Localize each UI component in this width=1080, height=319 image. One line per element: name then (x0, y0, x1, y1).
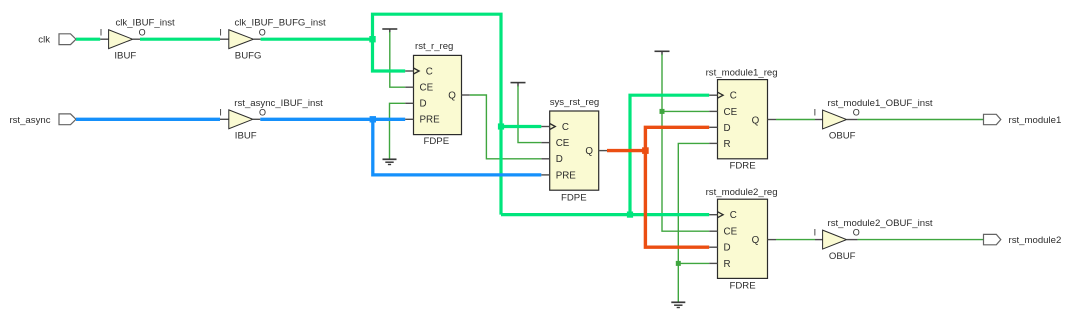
type label IBUF (114, 51, 136, 62)
svg-text:PRE: PRE (556, 170, 577, 181)
svg-text:clk_IBUF_BUFG_inst: clk_IBUF_BUFG_inst (235, 18, 326, 29)
pin label O of clk IBUF (139, 27, 146, 37)
port label rst_module1 (1009, 115, 1062, 126)
vcc const1 symbol (rst_r_reg CE) (382, 29, 397, 33)
clock wedge sys_rst_reg C (550, 124, 556, 130)
pin stubs rst_module1_reg (709, 95, 776, 143)
type label BUFG (235, 51, 262, 62)
wire clk net BUFG to junction (261, 38, 373, 41)
svg-text:I: I (100, 27, 103, 37)
pin stub I of clk IBUF (100, 38, 108, 40)
wire clk net branch to sys_rst_reg C (501, 125, 541, 128)
instance label rst_async_IBUF_inst (234, 98, 323, 109)
instance label rst_module2_OBUF_inst (828, 218, 933, 229)
svg-text:C: C (730, 210, 737, 221)
type label OBUF1 (829, 131, 856, 142)
pin label R rst_module2_reg (724, 259, 731, 270)
pin label I of OBUF2 (814, 227, 817, 237)
buffer U clk_IBUF_inst (109, 30, 133, 49)
svg-text:O: O (853, 107, 860, 117)
output port rst_module2 (984, 234, 1001, 244)
pin stub O of clk IBUF (133, 38, 140, 40)
pin stub O of BUFG (253, 38, 260, 40)
svg-text:rst_module1: rst_module1 (1009, 115, 1062, 126)
wire sys_rst net to rst_module1_reg D (645, 127, 709, 150)
wire rst_async net IBUF to junction (260, 118, 373, 121)
svg-text:C: C (730, 91, 737, 102)
pin label I of rst_async IBUF (219, 107, 222, 117)
svg-text:rst_module2_reg: rst_module2_reg (706, 187, 778, 198)
clock wedge rst_module1_reg C (718, 92, 724, 98)
svg-text:IBUF: IBUF (235, 131, 257, 142)
wire rst_async net to rst_r_reg PRE (373, 118, 405, 121)
pin label O of BUFG (259, 27, 266, 37)
pin label D rst_module2_reg (724, 243, 731, 254)
svg-text:Q: Q (448, 90, 456, 101)
svg-text:D: D (420, 99, 427, 110)
pin label Q rst_module1_reg (752, 115, 760, 126)
register sys_rst_reg FDPE (550, 111, 599, 190)
pin label Q sys_rst_reg (585, 146, 593, 157)
type label OBUF2 (829, 251, 856, 262)
svg-text:rst_module2_OBUF_inst: rst_module2_OBUF_inst (828, 218, 933, 229)
pin stub O of rst_async IBUF (253, 118, 260, 120)
type label FDRE rst_module2_reg (730, 281, 756, 292)
pin label C rst_module2_reg (730, 210, 737, 221)
register rst_r_reg FDPE (414, 55, 462, 134)
pin stubs sys_rst_reg (541, 127, 607, 175)
port label rst_module2 (1009, 235, 1062, 246)
pin stub O of OBUF1 (847, 119, 858, 121)
instance label clk_IBUF_inst (116, 18, 176, 29)
svg-text:FDPE: FDPE (561, 192, 587, 203)
pin label CE sys_rst_reg (556, 138, 570, 149)
svg-text:O: O (139, 27, 146, 37)
svg-text:Q: Q (752, 235, 760, 246)
svg-text:O: O (853, 227, 860, 237)
pin label CE rst_module1_reg (724, 107, 738, 118)
svg-text:D: D (724, 243, 731, 254)
svg-text:rst_module1_reg: rst_module1_reg (706, 68, 778, 79)
instance label clk_IBUF_BUFG_inst (235, 18, 326, 29)
svg-text:FDRE: FDRE (730, 161, 756, 172)
junction clk net at sys_rst_reg C (498, 123, 504, 129)
wire clk port to IBUF (76, 38, 100, 41)
instance label rst_module1_reg (706, 68, 778, 79)
pin label O of OBUF2 (853, 227, 860, 237)
pin label D rst_module1_reg (724, 123, 731, 134)
buffer U rst_async_IBUF_inst (229, 110, 253, 129)
type label FDPE rst_r_reg (424, 136, 450, 147)
wire sys_rst net to rst_module2_reg D (645, 151, 709, 248)
svg-text:rst_async_IBUF_inst: rst_async_IBUF_inst (234, 98, 323, 109)
svg-text:O: O (259, 27, 266, 37)
type label FDPE sys_rst_reg (561, 192, 587, 203)
svg-text:CE: CE (724, 107, 738, 118)
svg-text:I: I (219, 27, 222, 37)
junction rst_async net (370, 116, 376, 122)
ground symbol (module R) (671, 302, 685, 307)
svg-text:R: R (724, 259, 731, 270)
buffer U clk_IBUF_BUFG_inst (229, 30, 254, 49)
wire const1 trunk to CE pins (662, 54, 709, 231)
wire rst_async port to IBUF (76, 118, 220, 121)
svg-text:I: I (814, 227, 817, 237)
svg-text:CE: CE (556, 138, 570, 149)
pin label CE rst_module2_reg (724, 227, 738, 238)
wire rst_r_reg Q to sys_rst_reg D (470, 95, 542, 159)
pin label I of clk IBUF (100, 27, 103, 37)
wire clk_IBUF to BUFG (140, 38, 220, 41)
input port clk (59, 34, 76, 45)
junction clk net at BUFG output (369, 36, 375, 42)
wire clk net branch to rst_r_reg C (373, 39, 406, 71)
pin stub I of rst_async IBUF (220, 118, 229, 120)
register rst_module1_reg FDRE (718, 80, 768, 159)
pin label Q rst_r_reg (448, 90, 456, 101)
svg-text:BUFG: BUFG (235, 51, 262, 62)
svg-text:IBUF: IBUF (114, 51, 136, 62)
svg-text:O: O (259, 107, 266, 117)
register rst_module2_reg FDRE (718, 199, 768, 278)
junction sys_rst net (642, 147, 649, 154)
clock wedge rst_r_reg C (414, 68, 420, 74)
instance label rst_module1_OBUF_inst (828, 98, 933, 109)
svg-text:I: I (219, 107, 222, 117)
pin label I of BUFG (219, 27, 222, 37)
wire const1 to rst_r_reg CE (390, 32, 405, 87)
type label FDRE rst_module1_reg (730, 161, 756, 172)
wire sys_rst net Q to junction (607, 149, 645, 152)
pin stub O of OBUF2 (847, 239, 858, 241)
pin label D sys_rst_reg (556, 154, 563, 165)
instance label sys_rst_reg (550, 97, 600, 108)
instance label rst_r_reg (415, 41, 453, 52)
svg-text:C: C (426, 66, 433, 77)
buffer U rst_module2_OBUF_inst (823, 230, 847, 249)
svg-text:CE: CE (724, 227, 738, 238)
junction ground net at rst_module2_reg R (676, 261, 681, 266)
svg-text:CE: CE (420, 83, 434, 94)
pin label PRE rst_r_reg (420, 115, 441, 126)
wire ground branch to rst_module2_reg R (678, 262, 709, 264)
pin label C sys_rst_reg (562, 122, 569, 133)
junction const1 at rst_module1_reg CE (660, 109, 665, 114)
svg-text:rst_r_reg: rst_r_reg (415, 41, 453, 52)
svg-text:OBUF: OBUF (829, 251, 856, 262)
wire const1 branch to rst_module1_reg CE (662, 110, 709, 112)
svg-text:rst_async: rst_async (9, 115, 50, 126)
svg-text:PRE: PRE (420, 115, 441, 126)
svg-text:C: C (562, 122, 569, 133)
pin label C rst_r_reg (426, 66, 433, 77)
svg-text:sys_rst_reg: sys_rst_reg (550, 97, 600, 108)
pin label Q rst_module2_reg (752, 235, 760, 246)
pin stub I of OBUF1 (815, 119, 823, 121)
wire clk net trunk top (373, 14, 502, 214)
pin stubs rst_module2_reg (709, 215, 776, 264)
svg-text:FDRE: FDRE (730, 281, 756, 292)
instance label rst_module2_reg (706, 187, 778, 198)
pin label I of OBUF1 (814, 107, 817, 117)
output port rst_module1 (984, 114, 1001, 124)
wire rst_r_reg D to ground (390, 103, 406, 159)
pin label C rst_module1_reg (730, 91, 737, 102)
vcc const1 symbol (sys_rst_reg CE) (511, 83, 526, 87)
clock wedge rst_module2_reg C (718, 212, 724, 218)
svg-text:rst_module1_OBUF_inst: rst_module1_OBUF_inst (828, 98, 933, 109)
svg-text:D: D (724, 123, 731, 134)
pin label D rst_r_reg (420, 99, 427, 110)
pin label O of OBUF1 (853, 107, 860, 117)
svg-text:clk: clk (38, 35, 50, 46)
pin label CE rst_r_reg (420, 83, 434, 94)
port label rst_async (9, 115, 50, 126)
input port rst_async (59, 114, 76, 125)
pin label R rst_module1_reg (724, 139, 731, 150)
wire rst_module1_reg Q to OBUF (776, 119, 815, 121)
wire const1 to sys_rst_reg CE (518, 86, 541, 143)
wire rst_module1_reg R to ground trunk (678, 143, 709, 301)
svg-text:R: R (724, 139, 731, 150)
junction clk net on bottom run (627, 212, 633, 218)
wire clk net bottom run to rst_module2_reg C (501, 213, 709, 216)
pin label O of rst_async IBUF (259, 107, 266, 117)
pin label PRE sys_rst_reg (556, 170, 577, 181)
port label clk (38, 35, 50, 46)
svg-text:I: I (814, 107, 817, 117)
type label IBUF rst_async (235, 131, 257, 142)
wire rst_module2_reg Q to OBUF (776, 239, 815, 241)
wire clk net riser to rst_module1_reg C (630, 95, 709, 214)
ground symbol (rst_r_reg D) (383, 159, 397, 164)
pin stub I of OBUF2 (815, 239, 823, 241)
wire OBUF1 to rst_module1 port (858, 119, 984, 121)
svg-text:Q: Q (585, 146, 593, 157)
svg-text:rst_module2: rst_module2 (1009, 235, 1062, 246)
vcc const1 symbol (module CE) (655, 51, 670, 55)
svg-text:Q: Q (752, 115, 760, 126)
pin stub I of BUFG (220, 38, 229, 40)
wire rst_async net down to sys_rst_reg PRE (373, 119, 542, 175)
svg-text:D: D (556, 154, 563, 165)
wire OBUF2 to rst_module2 port (858, 239, 984, 241)
svg-text:OBUF: OBUF (829, 131, 856, 142)
buffer U rst_module1_OBUF_inst (823, 110, 847, 129)
svg-text:FDPE: FDPE (424, 136, 450, 147)
pin stubs rst_r_reg (405, 71, 470, 119)
